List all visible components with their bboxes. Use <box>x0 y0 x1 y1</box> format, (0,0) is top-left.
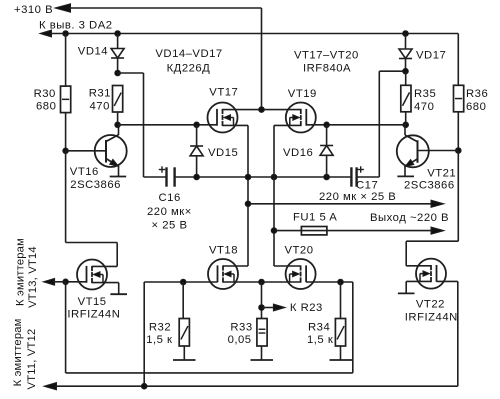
node VD17 bottom <box>403 68 409 74</box>
svg-text:КД226Д: КД226Д <box>167 63 211 75</box>
C16 plus sign <box>159 166 165 172</box>
svg-text:VD14–VD17: VD14–VD17 <box>155 48 222 60</box>
wire VT15 source stub <box>92 283 119 295</box>
ground tick VT21 emitter <box>397 175 414 177</box>
ground tick R32 <box>173 359 196 361</box>
svg-text:VT17–VT20: VT17–VT20 <box>294 50 359 62</box>
transistor VT15 (MOSFET) <box>77 260 107 290</box>
label VT21 <box>404 168 456 192</box>
wire VD17 bottom lead <box>405 59 407 72</box>
label VD17 <box>416 50 446 62</box>
node VD16 top <box>324 122 330 128</box>
node R33 top <box>259 279 265 285</box>
wire DA2 rail drop to R36 <box>457 34 459 86</box>
label R36 <box>466 88 488 113</box>
wire K R23 arrow <box>262 304 286 311</box>
node R34 top <box>338 279 344 285</box>
wire R32 bottom lead <box>183 347 185 361</box>
svg-text:IRF840A: IRF840A <box>303 63 351 75</box>
svg-text:VT21: VT21 <box>427 168 456 180</box>
wire R34 bottom lead <box>340 347 342 361</box>
node output2 tap <box>271 228 277 234</box>
svg-text:VD16: VD16 <box>283 147 313 159</box>
ground tick VT22 source <box>398 292 415 294</box>
svg-text:0,05: 0,05 <box>228 334 252 346</box>
wire VD15 bottom lead <box>196 156 198 177</box>
resistor R35 <box>401 85 411 112</box>
node VT18 gate drop on bus B <box>141 383 147 389</box>
capacitor C17 plates <box>351 167 356 186</box>
label K emitteram VT13 VT14 <box>14 238 39 308</box>
label VD14-VD17 group <box>155 48 222 75</box>
wire DA2 rail with left arrow <box>40 30 458 37</box>
wire VT18 gate rail <box>144 281 217 283</box>
svg-text:470: 470 <box>90 101 110 113</box>
label R32 <box>146 322 172 346</box>
svg-text:1,5 к: 1,5 к <box>146 334 172 346</box>
fuse FU1 <box>301 227 327 235</box>
svg-text:× 25 В: × 25 В <box>152 220 188 232</box>
svg-text:К эмиттерам: К эмиттерам <box>12 318 24 386</box>
svg-text:VT11, VT12: VT11, VT12 <box>26 329 38 390</box>
label output <box>370 212 449 224</box>
wire R34 top lead <box>340 282 342 319</box>
svg-text:R30: R30 <box>34 88 56 100</box>
svg-text:VD15: VD15 <box>208 147 238 159</box>
resistor R30 <box>61 86 71 113</box>
label VD15 <box>208 147 238 159</box>
svg-text:680: 680 <box>36 101 56 113</box>
wire VT18 gate rail drop <box>143 282 145 386</box>
wire VT22 drain stub <box>406 265 431 267</box>
resistor R31 <box>113 86 123 113</box>
wire VT18 drain stub <box>223 265 248 267</box>
ground tick R34 <box>330 359 353 361</box>
wire VT22 gate lead <box>437 281 458 386</box>
wire mid electrolytic rail left <box>144 176 167 178</box>
transistor VT16 <box>95 135 127 167</box>
svg-text:VT16: VT16 <box>70 166 99 178</box>
wire VT15 gate node down <box>65 282 67 373</box>
resistor R34 <box>335 319 345 347</box>
svg-text:R31: R31 <box>89 87 111 99</box>
wire VD14 top lead <box>117 34 119 49</box>
svg-text:VT13, VT14: VT13, VT14 <box>27 246 39 308</box>
svg-text:220 мк × 25 В: 220 мк × 25 В <box>319 191 396 203</box>
wire R31 bottom lead <box>117 112 119 125</box>
svg-text:IRFIZ44N: IRFIZ44N <box>67 309 120 321</box>
svg-text:IRFIZ44N: IRFIZ44N <box>405 312 458 324</box>
ground tick R33 <box>251 359 274 361</box>
C17 plus sign <box>358 166 364 172</box>
node +310V to drains <box>259 107 265 113</box>
node output1 tap <box>245 201 251 207</box>
node VT17-source riser on mid rail <box>245 174 251 180</box>
svg-text:VT20: VT20 <box>285 244 314 256</box>
wire VT17 source to midpoint riser <box>223 125 249 266</box>
svg-text:VT15: VT15 <box>78 296 107 308</box>
node R30 top <box>63 31 69 37</box>
wire VD15 top lead <box>196 125 198 146</box>
wire output 2 through fuse with right arrow <box>274 227 444 234</box>
transistor VT18 (MOSFET) <box>208 259 238 289</box>
svg-text:VD17: VD17 <box>416 50 446 62</box>
wire VT15 gate lead <box>66 281 87 283</box>
svg-text:К выв. 3 DA2: К выв. 3 DA2 <box>39 20 113 32</box>
label R34 <box>307 322 333 346</box>
transistor VT17 (MOSFET) <box>208 103 238 133</box>
resistor R33 <box>257 319 267 347</box>
label FU1 <box>293 212 337 224</box>
resistor R32 <box>179 319 189 347</box>
svg-text:R33: R33 <box>230 322 252 334</box>
node VD17 top <box>403 31 409 37</box>
svg-text:680: 680 <box>466 101 486 113</box>
wire VT15 drain stub <box>92 265 117 267</box>
label VT17 <box>209 87 238 99</box>
svg-text:FU1 5 A: FU1 5 A <box>293 212 337 224</box>
wire VT21 collector lead <box>404 125 406 135</box>
transistor VT22 (MOSFET, mirrored) <box>416 259 446 289</box>
wire R30 bottom lead to VT16 base node <box>65 113 67 151</box>
node VD15 bottom <box>194 174 200 180</box>
node VD15 top <box>194 122 200 128</box>
wire VT21 base lead <box>418 150 459 152</box>
node VT15 gate <box>63 279 69 285</box>
wire VD14 node to C16 branch <box>118 73 144 177</box>
node VT16 base / R30 / VT15 drain <box>63 148 69 154</box>
wire R36 bottom lead to VT21 base node <box>457 112 459 151</box>
svg-text:R35: R35 <box>414 88 436 100</box>
wire mid electrolytic rail center <box>175 176 352 178</box>
ground tick VT15 source <box>110 293 127 295</box>
net +310V label <box>14 4 53 16</box>
wire VT16-base node down <box>65 151 67 243</box>
label C16 <box>147 192 192 232</box>
net K vyv.3 DA2 label <box>39 20 113 32</box>
label VD14 <box>78 46 108 58</box>
wire VT17 gate net <box>118 124 217 126</box>
wire output 1 with right arrow <box>248 200 444 207</box>
ground tick VT16 emitter <box>110 176 127 178</box>
wire R30 top lead <box>65 34 67 87</box>
node VT19-source riser on mid rail <box>271 174 277 180</box>
svg-text:2SC3866: 2SC3866 <box>404 180 455 192</box>
wire R32 top lead <box>182 282 184 319</box>
wire VT15 drain riser <box>116 243 118 267</box>
node VD14 bottom <box>115 70 121 76</box>
node R32 top <box>180 279 186 285</box>
svg-text:VT18: VT18 <box>209 244 238 256</box>
wire gate net arrow to VT13/VT14 <box>43 278 66 285</box>
node VD14 top <box>115 31 121 37</box>
label C17 <box>319 180 396 204</box>
wire VT16 emitter lead <box>118 166 120 177</box>
wire VT20 gate lead <box>306 281 353 283</box>
wire VT22 drain riser <box>405 241 407 266</box>
wire bottom gate bus A <box>66 372 353 374</box>
transistor VT19 (MOSFET, mirrored) <box>286 103 316 133</box>
diode VD16 <box>320 146 333 156</box>
wire step left to VT22 drain riser <box>406 240 458 242</box>
diode VD15 <box>190 146 203 156</box>
svg-text:470: 470 <box>414 101 434 113</box>
node VT16 collector / R31 / VT17 gate net <box>115 122 121 128</box>
wire VT21-base node down right edge <box>457 151 459 242</box>
wire VT16 collector lead <box>118 125 120 135</box>
diode VD14 <box>111 49 124 59</box>
wire VT19 source to riser <box>274 125 301 266</box>
diode VD17 <box>399 49 412 59</box>
wire bottom bus B with left arrow to VT11/VT12 <box>44 383 458 390</box>
svg-text:+310 В: +310 В <box>14 4 53 16</box>
svg-text:VD14: VD14 <box>78 46 108 58</box>
label VT22 <box>405 299 458 324</box>
label VT15 <box>67 296 120 321</box>
svg-text:VT17: VT17 <box>209 87 238 99</box>
wire +310V rail with left arrow <box>55 4 262 12</box>
node VD16 bottom <box>324 174 330 180</box>
svg-text:R32: R32 <box>149 322 171 334</box>
wire VD14 bottom lead <box>117 58 119 73</box>
svg-text:К R23: К R23 <box>290 302 323 314</box>
wire VD16 top lead <box>326 125 328 146</box>
wire +310V drop to VT17/VT19 drains <box>261 8 263 110</box>
svg-text:R36: R36 <box>466 88 488 100</box>
wire VD16 bottom lead <box>326 155 328 177</box>
wire VT17/VT19 drain rail <box>223 109 301 111</box>
label R33 <box>228 322 253 346</box>
label R30 <box>34 88 57 113</box>
label VD16 <box>283 147 313 159</box>
svg-text:VT22: VT22 <box>416 299 445 311</box>
svg-text:R34: R34 <box>308 322 330 334</box>
transistor VT21 (mirrored) <box>397 135 429 167</box>
svg-text:2SC3866: 2SC3866 <box>70 179 121 191</box>
node VT21 collector / R35 <box>403 122 409 128</box>
label VT19 <box>288 88 317 100</box>
wire VT19 gate net <box>306 124 405 126</box>
wire C17 right to VD17 node <box>356 71 406 177</box>
node K R23 tap <box>259 305 265 311</box>
svg-text:1,5 к: 1,5 к <box>307 334 333 346</box>
wire R33 bottom lead <box>261 347 263 361</box>
wire VT21 emitter lead <box>404 166 406 176</box>
label VT16 <box>70 166 121 191</box>
svg-text:C17: C17 <box>356 180 378 192</box>
label R35 <box>414 88 436 113</box>
node VT21 base / R36 / VT22 drain <box>456 148 462 154</box>
label VT20 <box>285 244 314 256</box>
wire VT16 base lead <box>66 150 106 152</box>
wire gate bus A riser to VT20 gate <box>352 282 354 373</box>
wire VT20 drain stub <box>274 265 301 267</box>
transistor VT20 (MOSFET, mirrored) <box>286 259 316 289</box>
wire R35 top lead <box>405 71 407 85</box>
svg-text:VT19: VT19 <box>288 88 317 100</box>
svg-text:Выход ~220 В: Выход ~220 В <box>370 212 449 224</box>
wire R35 bottom lead <box>405 112 407 125</box>
wire R33 top lead <box>261 282 263 319</box>
label K R23 <box>290 302 323 314</box>
svg-text:220 мк×: 220 мк× <box>147 206 192 218</box>
resistor R36 <box>454 85 464 112</box>
label VT18 <box>209 244 238 256</box>
wire VT18/VT20 source rail <box>223 281 301 283</box>
wire step right to VT15 drain riser <box>66 242 118 244</box>
label VT17-VT20 group <box>294 50 359 75</box>
wire VT22 source stub <box>406 281 431 293</box>
label K emitteram VT11 VT12 <box>12 318 38 389</box>
wire VD17 top lead <box>405 34 407 50</box>
label R31 <box>89 87 111 112</box>
svg-text:C16: C16 <box>159 192 181 204</box>
svg-text:К эмиттерам: К эмиттерам <box>14 238 26 306</box>
capacitor C16 plates <box>167 167 175 186</box>
